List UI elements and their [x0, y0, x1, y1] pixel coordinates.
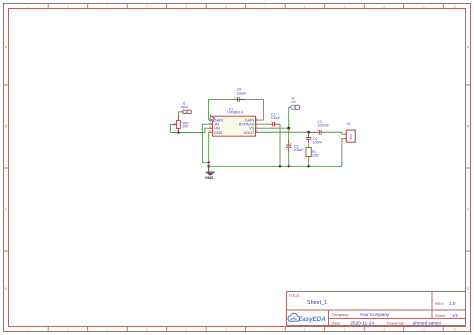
connector H1 speaker: [344, 122, 356, 142]
svg-text:Sheet_1: Sheet_1: [307, 300, 327, 306]
junction VOUT / C4 branch: [307, 131, 310, 134]
wire J2 down to VS node: [288, 107, 290, 128]
pin 6 VS: [255, 127, 259, 129]
svg-text:B: B: [467, 125, 469, 129]
wire C2 down to gnd rail: [288, 151, 290, 166]
svg-text:Drawn By:: Drawn By:: [387, 320, 405, 325]
svg-text:10k: 10k: [182, 125, 188, 129]
capacitor C2 100uF: [286, 141, 303, 153]
svg-text:EasyEDA: EasyEDA: [298, 316, 326, 323]
svg-text:LM386N-3: LM386N-3: [227, 111, 243, 115]
svg-text:ahmed samer: ahmed samer: [413, 321, 442, 326]
junction -IN/GND rail: [208, 161, 210, 163]
svg-text:TITLE:: TITLE:: [289, 293, 301, 298]
svg-text:B: B: [5, 125, 7, 129]
capacitor C3 1000uF: [314, 120, 329, 135]
svg-text:12: 12: [453, 328, 457, 332]
svg-text:Your Company: Your Company: [360, 312, 390, 317]
svg-text:100uF: 100uF: [236, 91, 246, 95]
wire C1 down to gnd rail: [279, 124, 281, 166]
wire U1 -IN down to gnd rail: [202, 124, 208, 162]
capacitor C5 100uF: [234, 88, 246, 102]
junction VS / J2 / C2: [287, 127, 290, 130]
svg-text:1/1: 1/1: [452, 313, 459, 318]
ground symbol GND: [205, 166, 215, 180]
potentiometer VR1: [172, 117, 189, 133]
junction C1/gnd rail: [279, 165, 281, 167]
svg-text:10: 10: [382, 328, 386, 332]
gnd rail (bottom bus): [209, 165, 342, 167]
junction R1/gnd rail: [307, 165, 309, 167]
svg-text:Date:: Date:: [332, 320, 341, 325]
connector J1: [181, 102, 192, 114]
svg-text:100uF: 100uF: [294, 148, 304, 152]
wire BYPASS to C1: [259, 123, 268, 125]
svg-text:GND: GND: [205, 176, 214, 180]
svg-text:input: input: [181, 105, 189, 109]
wire +5V node down to C2: [288, 128, 290, 143]
wire VR1 wiper to U1 +IN: [170, 124, 208, 132]
pin 1 GAIN left: [209, 119, 213, 121]
frame column numbers bottom: [27, 328, 456, 332]
pin 8 GAIN right: [255, 119, 259, 121]
svg-text:100nF: 100nF: [313, 140, 323, 144]
capacitor C4 100nF: [306, 135, 323, 145]
svg-text:REV:: REV:: [435, 301, 444, 306]
svg-text:VOUT: VOUT: [243, 130, 254, 135]
title block values: [307, 300, 459, 326]
svg-text:GND: GND: [214, 130, 223, 135]
wire R1 down to gnd rail: [308, 157, 310, 167]
capacitor C1 100uF: [268, 112, 281, 126]
title block borders: [287, 292, 466, 326]
wire gain loop (pin1 to pin8): [209, 99, 234, 120]
title block labels: [289, 293, 447, 326]
svg-text:SPK: SPK: [349, 134, 353, 140]
pin 7 BYPASS: [255, 123, 259, 125]
wire U1 GND pin down to ground: [208, 132, 210, 166]
svg-text:1000uF: 1000uF: [317, 124, 329, 128]
wire VOUT to C3: [259, 131, 315, 133]
wire C3 to H1 pin1: [326, 132, 344, 134]
pin 3 +IN: [209, 127, 213, 129]
wire J1 to VR1 top: [179, 112, 181, 117]
junction GND rail main: [207, 165, 210, 168]
junction VR1 bottom on wiper rail: [177, 131, 179, 133]
svg-text:11: 11: [422, 328, 425, 332]
svg-text:1.0: 1.0: [449, 301, 456, 306]
op-amp U1 LM386N-3: [209, 108, 259, 137]
svg-text:2020-11-24: 2020-11-24: [350, 321, 374, 326]
frame row letters left: [5, 45, 8, 291]
wire H1 pin2 down to gnd rail: [342, 139, 344, 167]
svg-text:H1: H1: [347, 122, 352, 126]
svg-text:+: +: [317, 128, 319, 132]
pin 4 GND: [209, 131, 213, 133]
mouse cursor: [210, 115, 215, 121]
resistor R1 10R: [306, 148, 319, 158]
svg-text:Sheet:: Sheet:: [435, 313, 446, 318]
frame column numbers top: [27, 5, 456, 9]
wire C4 to R1: [308, 143, 310, 148]
svg-text:+: +: [271, 119, 273, 123]
pin 2 -IN: [209, 123, 213, 125]
junction C2/gnd rail: [288, 165, 290, 167]
svg-text:+5V: +5V: [290, 100, 297, 104]
pin 5 VOUT: [255, 131, 259, 133]
wire C4 branch down: [308, 132, 310, 137]
svg-text:12: 12: [453, 5, 457, 9]
svg-text:10: 10: [382, 5, 386, 9]
connector J2 +5V: [289, 97, 300, 110]
EasyEDA logo: [288, 313, 326, 322]
svg-text:10Ω: 10Ω: [312, 153, 319, 157]
wire VS to +5V node: [259, 127, 289, 129]
svg-text:+: +: [234, 96, 236, 100]
svg-text:11: 11: [422, 5, 425, 9]
svg-text:Company:: Company:: [332, 312, 350, 317]
frame row letters right: [467, 45, 470, 291]
svg-text:+: +: [290, 141, 292, 145]
